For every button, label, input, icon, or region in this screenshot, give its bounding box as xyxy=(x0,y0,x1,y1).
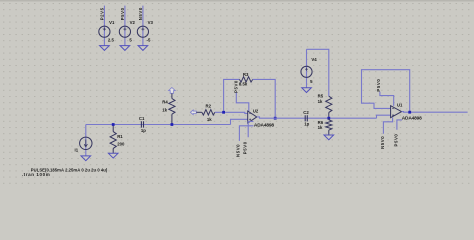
svg-text:U2: U2 xyxy=(253,108,259,113)
svg-text:1k: 1k xyxy=(318,99,323,104)
svg-text:2.5: 2.5 xyxy=(108,37,115,42)
ground xyxy=(138,46,148,51)
voltage source V4 xyxy=(306,49,308,87)
wire V1 top stub xyxy=(103,6,105,46)
resistor R5 xyxy=(326,96,332,112)
resistor R3 xyxy=(239,77,252,82)
svg-text:P5V0: P5V0 xyxy=(376,79,381,92)
wire to U1 noninv input xyxy=(377,115,391,118)
resistor R1 xyxy=(112,125,114,132)
node junction xyxy=(171,123,174,126)
wire U1 pin to P5V0 xyxy=(397,120,402,130)
ground xyxy=(324,135,334,140)
wire feedback to output xyxy=(253,79,276,118)
svg-text:V1: V1 xyxy=(109,20,115,25)
svg-text:P5V0: P5V0 xyxy=(243,141,248,154)
schematic background xyxy=(0,0,474,186)
svg-text:C1: C1 xyxy=(139,116,145,121)
wire U1 output row xyxy=(402,111,468,114)
wire U1 V- to N5V0 xyxy=(383,118,392,134)
resistor R6 xyxy=(328,118,330,120)
ground xyxy=(100,46,110,51)
svg-text:R1: R1 xyxy=(117,134,123,139)
node junction xyxy=(327,117,330,120)
svg-text:P5V0: P5V0 xyxy=(393,134,398,147)
svg-text:V2: V2 xyxy=(130,20,136,25)
svg-text:R3: R3 xyxy=(243,72,249,77)
svg-text:P2V5: P2V5 xyxy=(99,7,104,20)
svg-text:R4: R4 xyxy=(162,99,168,104)
wire to U2 noninv input xyxy=(231,119,248,124)
svg-text:-5: -5 xyxy=(147,37,151,42)
svg-text:R6: R6 xyxy=(318,120,324,125)
svg-text:1k: 1k xyxy=(162,108,167,113)
wire V2 top stub xyxy=(124,6,126,46)
wire main left row xyxy=(86,124,231,126)
svg-text:N5V0: N5V0 xyxy=(235,144,240,157)
wire V4 to R5 top xyxy=(307,49,329,96)
wire U1 feedback loop xyxy=(362,70,410,113)
port arrow (up) xyxy=(169,88,176,94)
svg-text:ADA4898: ADA4898 xyxy=(402,115,422,121)
voltage source V2 xyxy=(119,26,130,37)
wire U2 output row xyxy=(257,117,377,118)
svg-text:1p: 1p xyxy=(141,128,146,133)
op-amp U2 xyxy=(248,111,257,123)
wire V3 top stub xyxy=(142,6,144,46)
svg-text:V3: V3 xyxy=(148,20,154,25)
wire U2 V- to N5V0 xyxy=(239,126,253,141)
svg-text:N5V0: N5V0 xyxy=(138,7,143,20)
wire V+ to U1 xyxy=(380,92,394,106)
capacitor C2 xyxy=(305,115,307,121)
svg-text:P5V0: P5V0 xyxy=(120,7,125,20)
node junction output xyxy=(408,111,411,114)
resistor R4 xyxy=(171,93,173,98)
svg-text:1k: 1k xyxy=(207,117,212,122)
ground xyxy=(302,88,312,93)
capacitor C1 xyxy=(141,121,143,127)
node junction feedback tap xyxy=(224,79,240,112)
svg-text:V4: V4 xyxy=(311,57,317,62)
svg-text:1p: 1p xyxy=(304,121,309,126)
svg-text:C2: C2 xyxy=(303,110,309,115)
wire U2 pin to P5V0 xyxy=(248,121,253,137)
wire R2 to U2 inv input xyxy=(215,112,248,113)
voltage source V1 xyxy=(99,26,110,37)
ground xyxy=(120,46,130,51)
svg-text:200: 200 xyxy=(117,142,125,147)
node junction xyxy=(112,123,115,126)
svg-text:1k: 1k xyxy=(318,125,323,130)
wire V+ to U2 xyxy=(236,93,249,112)
svg-text:I1: I1 xyxy=(75,147,79,152)
ground xyxy=(81,156,91,161)
op-amp U1 xyxy=(391,106,402,118)
current source I1 xyxy=(85,125,87,156)
voltage source V3 xyxy=(137,26,148,37)
resistor R2 xyxy=(196,111,202,113)
svg-text:.tran 100m: .tran 100m xyxy=(22,172,51,177)
svg-text:P5V0: P5V0 xyxy=(234,80,239,93)
port arrow (left) xyxy=(190,110,196,115)
svg-text:N5V0: N5V0 xyxy=(380,136,385,149)
svg-text:R5: R5 xyxy=(318,93,324,98)
svg-text:8.5k: 8.5k xyxy=(239,81,248,86)
svg-text:ADA4898: ADA4898 xyxy=(254,123,274,129)
svg-text:R2: R2 xyxy=(206,103,212,108)
ground xyxy=(108,153,118,158)
svg-text:U1: U1 xyxy=(397,103,403,108)
